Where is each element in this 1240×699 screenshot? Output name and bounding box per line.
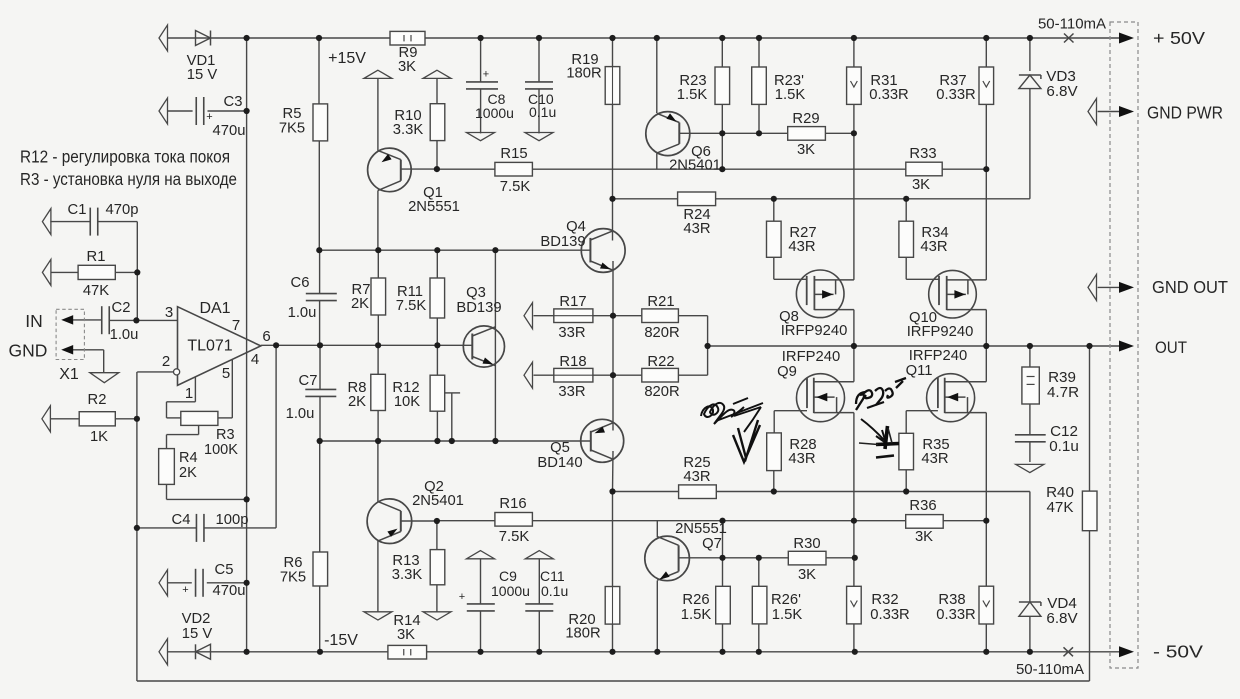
svg-text:470p: 470p [106,202,139,218]
svg-text:IRFP240: IRFP240 [909,348,967,364]
svg-text:180R: 180R [566,66,601,82]
svg-text:C2: C2 [112,300,131,316]
wire R37 source line Q10 [985,104,987,280]
wire opamp output line [261,344,473,346]
wire C10 branch [538,89,540,134]
resistor R23 [715,67,730,104]
wire R11 branch [436,250,438,278]
terminal -50V [1119,646,1134,657]
wire C6 branch [319,250,321,294]
svg-text:5: 5 [222,365,230,382]
transistor Q5 BD140 [581,419,624,462]
wire bottom border feedback [137,680,1090,682]
wire Q2 collector emitter [377,441,379,502]
wire R27 gate branch [773,199,775,221]
svg-text:2K: 2K [179,465,197,481]
svg-text:+: + [459,591,465,603]
resistor R38 [979,586,994,624]
svg-text:0.1u: 0.1u [529,104,556,120]
svg-text:0.33R: 0.33R [936,87,976,103]
handwriting gorjat left arrow [744,407,761,432]
handwriting gorjat right word [856,378,906,410]
svg-text:100K: 100K [204,442,238,458]
resistor R26prime [752,586,767,624]
svg-text:GND: GND [9,341,48,361]
wire opamp pin2 lead [137,371,174,373]
handwriting gorjat left underline [716,403,763,421]
resistor R19 [605,67,620,105]
svg-text:R3 - установка нуля на выходе: R3 - установка нуля на выходе [20,169,237,189]
wire C4 row [137,527,197,529]
wire lower mid rail Q5 base [320,440,591,442]
wire R17 row [534,315,554,317]
resistor R36 [906,515,944,529]
svg-text:43R: 43R [683,469,710,485]
svg-text:R26': R26' [771,592,801,608]
resistor R33 [906,162,942,176]
svg-text:R26: R26 [682,592,709,608]
wire R35 gate branch Q11 [906,410,938,412]
resistor R2 [42,406,51,432]
resistor R25 [679,485,717,499]
wire R34 gate branch [905,199,907,221]
wire C3 row [167,110,193,112]
resistor R22 [642,368,679,382]
resistor R34 [899,221,914,257]
svg-text:0.33R: 0.33R [870,607,910,623]
capacitor C5 [159,570,168,596]
wire R6 branch [319,441,321,552]
capacitor C6 [306,293,337,295]
wire GND OUT stub [1098,286,1119,288]
svg-text:BD139: BD139 [456,300,501,316]
connector arrow R17 [524,303,533,329]
resistor R32 [847,586,862,624]
svg-text:100p: 100p [216,512,249,528]
resistor R1 [42,259,51,285]
svg-text:0.1u: 0.1u [541,583,568,599]
svg-text:+15V: +15V [328,50,366,67]
wire +50V branch verticals [246,38,248,111]
diode VD2 [159,639,168,665]
svg-text:0.1u: 0.1u [1049,438,1079,455]
resistor R27 [767,221,782,257]
svg-text:GND OUT: GND OUT [1152,277,1228,297]
wire R12 wiper [445,392,461,394]
transistor Q4 BD139 [581,229,625,273]
ground C10 [525,133,553,141]
svg-text:R36: R36 [909,498,936,514]
resistor R13 [430,550,445,585]
wire R12 branch [436,345,438,375]
svg-text:R4: R4 [179,450,198,466]
svg-text:TL071: TL071 [187,338,232,355]
terminal OUT [1119,341,1134,352]
wire R8 branch [377,345,379,374]
svg-text:IN: IN [25,311,43,331]
svg-text:VD2: VD2 [182,611,211,627]
svg-text:15 V: 15 V [187,67,218,83]
wire GND PWR stub [1098,111,1119,113]
wire Q9 drain to OUT [853,346,855,382]
transistor Q6 2N5401 [646,112,690,156]
wire C5 row [168,582,192,584]
wire VD3 branch [1029,89,1031,199]
svg-text:R33: R33 [909,146,936,162]
connector arrow R18 [524,362,533,388]
zener VD3 [1019,74,1041,76]
svg-text:+: + [206,111,212,123]
svg-text:2N5551: 2N5551 [408,199,460,215]
svg-text:+: + [483,69,489,81]
svg-text:7.5K: 7.5K [500,179,531,195]
marker x bottom [1064,647,1074,656]
connector arrow VD1 row [159,25,168,51]
svg-text:R1: R1 [87,249,106,265]
wire left feedback vertical [136,372,138,681]
svg-text:3K: 3K [798,567,816,583]
handwriting gorjat right arrow [861,419,886,443]
svg-text:3.3K: 3.3K [392,567,423,583]
svg-text:3K: 3K [797,142,815,158]
wire R16 R36 rail [437,520,986,522]
wire lower gate rail R25 [613,491,1030,493]
svg-text:1.0u: 1.0u [288,305,317,321]
wire Q6 leads [656,112,658,114]
wire R10 branch [436,78,438,103]
svg-text:1.5K: 1.5K [677,87,708,103]
svg-text:2K: 2K [351,296,369,312]
wire R4 bottom row [167,498,247,500]
wire bottom -15V rail [168,651,1119,653]
svg-text:1000u: 1000u [475,105,514,121]
svg-text:7K5: 7K5 [279,121,305,137]
wire Q9 source R32 line [853,413,855,587]
wire R13 branch [436,521,438,550]
svg-text:15 V: 15 V [182,626,213,642]
resistor R21 [642,309,679,323]
resistor R39 [1022,367,1039,404]
wire R2 row [51,418,79,420]
svg-text:3K: 3K [397,627,415,643]
svg-text:-15V: -15V [324,632,358,649]
dashed connector strip [1110,22,1138,668]
terminal GND OUT [1088,274,1097,300]
svg-text:- 50V: - 50V [1153,642,1203,662]
svg-text:R32: R32 [871,592,898,608]
svg-text:3K: 3K [912,177,930,193]
wire R18 row [534,374,554,376]
mosfet Q9 IRFP240 [797,374,845,422]
svg-text:1K: 1K [90,429,108,445]
wire Q7 base rail R30 [679,557,855,559]
resistor R37 [979,67,994,104]
transistor Q7 2N5551 [645,536,690,581]
wire X1 gnd lead [73,349,104,351]
wire R22 row [613,374,642,376]
svg-text:IRFP9240: IRFP9240 [781,323,848,339]
svg-text:820R: 820R [644,325,679,341]
wire Q11 drain to OUT [985,346,987,382]
resistor R4 [159,449,175,485]
svg-text:50-110mA: 50-110mA [1016,661,1084,678]
wire Q4 emitter chain Q5 [612,261,614,431]
svg-text:R22: R22 [647,354,674,370]
svg-text:X1: X1 [59,366,79,383]
wire Q10 drain to OUT [985,310,987,346]
svg-text:1.0u: 1.0u [110,327,139,343]
diode VD1 [196,31,211,46]
wire VD4 branch [1029,492,1031,603]
svg-text:33R: 33R [558,325,585,341]
svg-text:R16: R16 [499,496,526,512]
svg-text:R15: R15 [500,146,527,162]
resistor R11 [430,278,445,318]
svg-text:Q11: Q11 [906,363,933,379]
wire C9 branch [480,559,482,604]
svg-text:43R: 43R [788,239,815,255]
transistor Q2 2N5401 [367,499,412,544]
wire +15V supply line pin7/pin4 [246,111,248,652]
svg-text:IRFP240: IRFP240 [782,349,840,365]
svg-text:C5: C5 [215,562,234,578]
svg-text:2N5401: 2N5401 [412,493,464,509]
wire R26p lead [758,558,760,587]
svg-text:R18: R18 [559,354,586,370]
wire Q6 base rail R29 [679,132,854,134]
handwriting gorjat right dash [876,456,894,458]
svg-text:4.7R: 4.7R [1047,384,1079,401]
resistor R26 [716,586,731,624]
terminal +50V [1119,33,1134,44]
resistor R30 [788,551,826,565]
marker x top [1064,34,1074,43]
wire R28 gate branch Q9 [774,410,807,412]
resistor R5 [313,104,328,141]
connector IN arrow [61,315,73,325]
svg-text:R17: R17 [559,294,586,310]
ground C8 [467,133,495,141]
svg-text:R38: R38 [938,592,965,608]
resistor R20 [605,587,620,625]
resistor R29 [788,127,826,141]
svg-text:Q9: Q9 [777,364,797,380]
wire Q3 collector emitter vertical [494,250,496,441]
svg-text:2K: 2K [348,394,366,410]
wire R19 Q4 line [612,67,614,105]
wire R26 node vertical [722,521,724,587]
wire input vertical C1 R1 C2 [136,222,138,321]
svg-text:7: 7 [232,317,240,334]
op-amp pin2 bubble [174,369,180,375]
svg-text:C11: C11 [540,568,565,584]
resistor R10 [430,104,445,141]
wire R23p lead [758,104,760,133]
svg-text:7K5: 7K5 [280,570,306,586]
svg-text:2N5551: 2N5551 [675,521,727,537]
svg-text:C7: C7 [299,373,318,389]
svg-text:Q3: Q3 [466,285,486,301]
fuse R9 [390,31,425,45]
resistor R31 [847,67,862,104]
wire C8 branch [480,81,482,83]
terminal GND PWR [1088,99,1097,125]
svg-text:1.0u: 1.0u [286,406,315,422]
svg-text:GND PWR: GND PWR [1147,103,1223,123]
fuse R14 [388,645,427,659]
arrow -15V R13 [423,612,451,620]
svg-text:C9: C9 [499,568,517,584]
wire R3 wiper to R4 [198,425,200,434]
wire C11 branch [538,559,540,604]
resistor R15 [495,162,533,176]
arrow -15V Q2 [364,612,392,620]
svg-text:R21: R21 [647,294,674,310]
op-amp DA1 TL071 [178,307,261,386]
wire R5 branch [318,104,320,141]
svg-text:0.33R: 0.33R [936,607,976,623]
svg-text:50-110mA: 50-110mA [1038,16,1106,33]
wire +50V top rail [167,37,1119,39]
wire C2 row pin3 [73,319,102,321]
svg-text:7.5K: 7.5K [396,298,427,314]
wire R31 source line Q8 [853,104,855,280]
handwriting gorjat left word [701,398,748,424]
svg-text:470u: 470u [213,123,246,139]
wire R7 branch [377,250,379,278]
wire R4 bottom lead [166,484,168,499]
svg-text:C3: C3 [224,94,243,110]
wire R23 node vertical [721,104,723,169]
svg-text:0.33R: 0.33R [869,87,909,103]
svg-text:6: 6 [262,328,270,345]
svg-text:820R: 820R [644,384,679,400]
wire R1 row [51,271,78,273]
capacitor C3 [195,97,197,125]
wire Q11 source R38 line [985,413,987,587]
wire R40 feedback line [1089,346,1091,491]
resistor R16 [495,513,533,527]
svg-text:33R: 33R [558,384,585,400]
svg-text:BD140: BD140 [537,455,582,471]
wire upper mid rail Q4 base [319,249,590,251]
svg-text:3.3K: 3.3K [393,122,424,138]
handwriting gorjat right stroke [867,402,884,408]
svg-text:43R: 43R [920,239,947,255]
svg-text:47K: 47K [1046,499,1073,516]
resistor R7 [371,278,386,315]
svg-text:R29: R29 [792,111,819,127]
svg-text:Q5: Q5 [550,440,570,456]
mosfet Q11 IRFP240 [927,374,975,422]
arrow C11 [525,551,553,559]
capacitor C4 [195,514,197,542]
svg-text:C1: C1 [68,202,87,218]
wire Q8 drain to OUT [853,310,855,346]
arrow C9 [467,551,495,559]
arrow +15V R10 [423,70,451,78]
svg-text:6.8V: 6.8V [1046,83,1078,100]
wire Q5 collector R20 line [612,451,615,492]
capacitor C1 [42,209,51,235]
svg-text:2N5401: 2N5401 [669,158,721,174]
wire C1 row [50,221,90,223]
svg-text:C6: C6 [291,275,310,291]
svg-text:3: 3 [165,304,173,321]
wire R21 row [613,315,642,317]
mosfet Q8 IRFP9240 [796,270,844,318]
svg-text:C4: C4 [172,512,191,528]
wire C7 branch [319,345,321,389]
svg-text:1.5K: 1.5K [681,607,712,623]
capacitor C7 [305,388,336,390]
svg-text:6.8V: 6.8V [1046,610,1078,627]
resistor R18 [554,368,593,382]
svg-text:3K: 3K [915,529,933,545]
svg-text:2: 2 [162,353,170,370]
svg-text:R12 - регулировка тока покоя: R12 - регулировка тока покоя [20,147,230,167]
capacitor C2 [101,306,103,334]
resistor R6 [313,552,328,586]
capacitor C12 [1015,434,1046,436]
svg-text:Q7: Q7 [702,536,722,552]
svg-text:470u: 470u [213,583,246,599]
connector X1 box [56,309,84,359]
ground C12 [1016,464,1044,472]
svg-text:R30: R30 [793,536,820,552]
svg-text:10K: 10K [394,394,420,410]
svg-text:43R: 43R [788,451,815,467]
ground X1 [90,373,119,383]
svg-text:43R: 43R [921,451,948,467]
arrow +15V Q1 [364,70,392,78]
svg-text:180R: 180R [565,626,600,642]
wire upper gate rail R24 [613,198,1030,200]
resistor R24 [678,192,716,206]
svg-text:1.5K: 1.5K [775,87,806,103]
svg-text:1: 1 [185,385,193,402]
wire Q2 base lead [401,520,437,522]
capacitor C10 [525,81,553,83]
wire R39 C12 branch [1029,346,1031,367]
resistor R28 [767,433,782,471]
svg-text:1.5K: 1.5K [772,607,803,623]
zener VD4 [1019,601,1041,603]
wire opamp pin1 path [194,377,196,402]
trimmer R12 [430,375,445,411]
wire Q1 collector emitter [377,78,379,150]
wire Q7 leads [656,521,658,537]
svg-text:47K: 47K [83,283,109,299]
svg-text:+ 50V: + 50V [1153,28,1205,48]
wire C4 to output vertical [275,345,277,528]
svg-text:1000u: 1000u [491,583,530,599]
svg-text:R3: R3 [216,427,235,443]
capacitor C11 [525,603,553,605]
svg-text:4: 4 [251,351,259,368]
wire OUT rail [708,345,1119,347]
mosfet Q10 IRFP9240 [929,270,977,318]
svg-text:+: + [182,584,188,596]
transistor Q1 2N5551 [368,148,412,192]
svg-text:3K: 3K [398,59,416,75]
junction dots [244,35,250,41]
svg-text:R2: R2 [88,392,107,408]
svg-text:DA1: DA1 [199,300,230,317]
resistor R17 [554,309,593,323]
resistor R35 [899,433,914,470]
resistor R23prime [752,67,767,104]
